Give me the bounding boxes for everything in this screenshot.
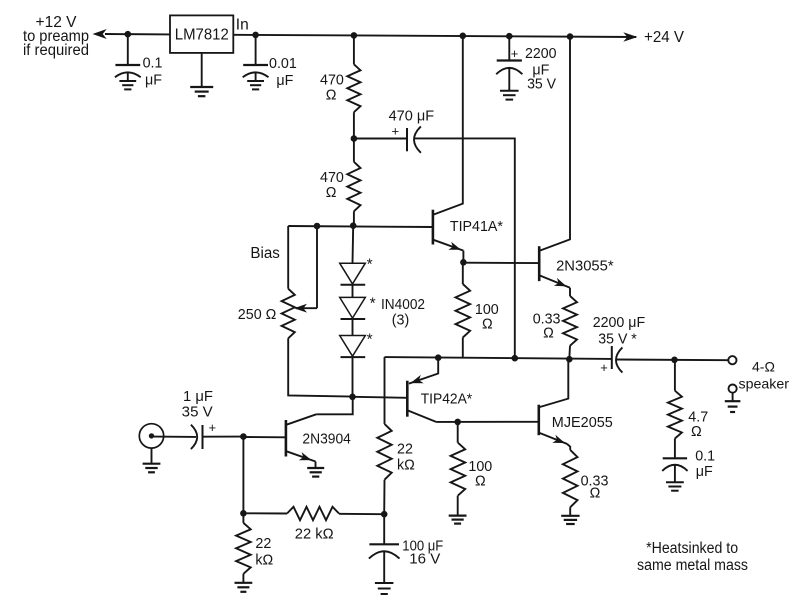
ground: Q3 emitter: [307, 462, 324, 477]
capacitor C8 2200 uF 35 V output coupling: [593, 315, 646, 375]
connector J1 phono input jack: [139, 424, 163, 448]
svg-text:0.1: 0.1: [695, 448, 715, 464]
resistor R1 470 ohm: [320, 64, 361, 112]
svg-text:μF: μF: [145, 73, 162, 89]
svg-text:0.1: 0.1: [143, 55, 163, 71]
junction: R9 tap on Q4 collector line: [454, 419, 461, 426]
svg-text:1 μF: 1 μF: [183, 389, 213, 405]
junction: Q2 collector rail tap: [567, 33, 574, 40]
svg-text:Ω: Ω: [475, 473, 486, 489]
svg-text:*: *: [367, 331, 373, 348]
junction: diode chain / feedback node: [349, 394, 356, 401]
wire: jack to C3: [154, 436, 196, 438]
junction: bootstrap node between R1 and R2: [351, 135, 358, 142]
wire: output rail corner down through crossover to R7: [384, 357, 386, 424]
capacitor C1 0.1 uF bypass with ground: [115, 34, 163, 89]
svg-text:MJE2055: MJE2055: [552, 415, 613, 431]
svg-text:Ω: Ω: [543, 325, 554, 341]
wire: V+ rail from U1 to +24V arrow: [233, 35, 636, 37]
ground: input jack shield: [143, 448, 161, 472]
resistor R4 100 ohm: [456, 284, 499, 338]
junction: bootstrap riser tap on output rail: [512, 355, 519, 362]
junction: divider node at R6/R8: [240, 510, 247, 517]
junction: TIP42A emitter tap on output rail: [435, 354, 442, 361]
svg-text:0.01: 0.01: [269, 56, 297, 72]
wiper arm of R3 with arrow: [294, 304, 317, 313]
wire: D1 to D2: [352, 285, 354, 297]
junction: Q1 collector rail tap: [460, 33, 467, 40]
wire: output rail from feedback corner to C8: [385, 357, 612, 359]
wire: C4 to output node (bootstrap riser): [414, 138, 515, 358]
transistor Q5 MJE2055 (NPN output): [539, 359, 613, 450]
svg-text:2200 μF: 2200 μF: [593, 315, 646, 331]
wire: Q4 collector line to Q5 base: [436, 421, 539, 423]
svg-text:Ω: Ω: [590, 486, 601, 502]
potentiometer R3 250 ohm: [238, 289, 295, 339]
svg-text:μF: μF: [696, 464, 713, 480]
resistor R9 100 ohm: [451, 443, 493, 496]
svg-text:+: +: [392, 124, 400, 139]
svg-text:LM7812: LM7812: [175, 27, 229, 44]
svg-text:+: +: [600, 360, 608, 375]
svg-text:470: 470: [320, 170, 344, 186]
ground: speaker return: [725, 393, 741, 412]
svg-text:+: +: [209, 420, 217, 435]
junction: top of 470 ohm chain on V+ rail: [351, 32, 358, 39]
ground: U1 common pin: [190, 53, 213, 96]
wire: C3 to input node: [203, 436, 244, 438]
label: 4-ohm speaker: [739, 358, 790, 391]
wire: feedback node to TIP42A base: [353, 397, 408, 398]
svg-text:*: *: [367, 256, 373, 273]
wire: V+ rail down to Q1 collector: [433, 36, 462, 215]
wire: V+ rail down to Q2 collector: [540, 37, 570, 251]
resistor R5 0.33 ohm: [533, 296, 577, 346]
svg-text:100: 100: [475, 302, 499, 318]
svg-text:+: +: [511, 46, 519, 61]
svg-text:*Heatsinked to: *Heatsinked to: [646, 540, 738, 557]
ground: R6 bottom: [235, 574, 253, 592]
junction: 0.01uF node at U1 input: [252, 32, 259, 39]
wire: input node down to divider node: [242, 437, 244, 514]
svg-text:2N3055*: 2N3055*: [556, 258, 614, 274]
svg-text:μF: μF: [276, 73, 293, 89]
svg-text:kΩ: kΩ: [255, 552, 273, 568]
svg-text:kΩ: kΩ: [397, 457, 415, 473]
wire: C8 to speaker terminal: [616, 359, 728, 362]
wire: wiper up to bias junction: [316, 226, 318, 308]
capacitor C3 1 uF 35 V input coupling: [182, 389, 216, 449]
resistor R7 22 kilohm: [377, 424, 415, 480]
wire: bootstrap node to C4: [354, 138, 407, 140]
resistor R11 0.33 ohm: [563, 450, 609, 507]
junction: 0.1uF node on +12V wire: [125, 31, 132, 38]
transistor Q2 2N3055 (NPN output): [539, 246, 614, 288]
transistor Q3 2N3904 (input NPN): [286, 397, 353, 462]
wire: R3 bottom to diode-chain bottom node: [288, 338, 352, 396]
svg-text:Ω: Ω: [326, 88, 337, 104]
transistor Q4 TIP42A (PNP driver): [407, 358, 472, 422]
wire: Q1 emitter node to R4: [462, 262, 464, 284]
label: IN4002 (3) for diode chain: [381, 297, 425, 329]
junction: 2200uF node on V+ rail: [506, 33, 513, 40]
svg-text:2N3904: 2N3904: [302, 432, 351, 448]
svg-text:Bias: Bias: [250, 245, 280, 262]
wire: R2 to Q1 base node: [353, 211, 355, 225]
wire: D2 to D3: [352, 319, 354, 335]
arrow: +12V output to preamp (left): [93, 29, 107, 39]
resistor R6 22 kilohm to ground: [236, 513, 273, 574]
wire: base line from bias corner to Q1 base: [288, 226, 433, 227]
wire: rail to R1: [353, 35, 355, 64]
resistor R8 22 kilohm feedback: [243, 507, 339, 543]
svg-text:22 kΩ: 22 kΩ: [295, 527, 334, 543]
wire: Q1 emitter node to Q2 base: [463, 262, 539, 264]
svg-text:Ω: Ω: [326, 185, 337, 201]
svg-text:35 V: 35 V: [182, 405, 213, 421]
wire: speaker node down to R10: [674, 360, 676, 391]
svg-text:22: 22: [397, 441, 413, 457]
resistor R2 470 ohm: [320, 162, 361, 212]
wire: R10 to C7: [674, 439, 676, 459]
arrow: +24V rail (right): [623, 32, 637, 42]
wire: R8 to C5 node: [339, 513, 384, 515]
svg-text:if required: if required: [23, 42, 89, 59]
terminal: speaker return (open circle): [729, 385, 737, 393]
svg-text:TIP42A*: TIP42A*: [421, 391, 473, 407]
svg-text:470 μF: 470 μF: [389, 109, 435, 125]
junction: Q2/Q5 tap on output rail: [566, 356, 573, 363]
wire: bias corner down to R3: [287, 226, 289, 289]
ground: R11 bottom: [561, 507, 579, 524]
wire: input node to Q3 base: [243, 436, 286, 438]
capacitor C2 0.01 uF bypass with ground: [243, 35, 297, 90]
wire: R1 to bootstrap node: [353, 112, 355, 138]
junction: wiper tap on base line: [314, 223, 321, 230]
diode D3 IN4002: [340, 336, 366, 358]
svg-text:22: 22: [255, 536, 271, 552]
svg-text:16 V: 16 V: [409, 552, 440, 568]
svg-text:Ω: Ω: [691, 424, 702, 440]
svg-text:In: In: [236, 16, 249, 33]
svg-text:IN4002: IN4002: [381, 297, 425, 313]
svg-text:+24 V: +24 V: [644, 29, 685, 46]
wire: Q2 emitter to R5: [569, 288, 571, 296]
wire: D3 to bottom bias node: [352, 357, 354, 397]
terminal: speaker + (open circle): [728, 356, 736, 364]
svg-text:4-Ω: 4-Ω: [752, 358, 775, 374]
junction: zobel tap at speaker node: [671, 357, 678, 364]
svg-text:35 V: 35 V: [527, 77, 556, 93]
diode D2 IN4002: [340, 297, 366, 319]
svg-text:*: *: [370, 295, 376, 312]
wire: R7 to C5 node: [383, 480, 385, 515]
junction: C5 node under R7: [381, 511, 388, 518]
diode D1 IN4002: [340, 263, 366, 285]
wire: R2 from bootstrap node: [353, 139, 355, 162]
ground: R9 bottom: [449, 496, 467, 524]
svg-text:2200: 2200: [525, 46, 557, 62]
transistor Q1 TIP41A (NPN driver): [433, 210, 503, 263]
capacitor C4 470 uF bootstrap: [389, 109, 435, 153]
svg-text:35 V *: 35 V *: [598, 332, 637, 348]
wire: +12V tap from V+ rail to left arrow: [105, 33, 170, 35]
svg-text:same metal mass: same metal mass: [637, 557, 748, 574]
resistor R10 4.7 ohm zobel: [668, 391, 708, 440]
svg-text:speaker: speaker: [739, 376, 790, 392]
wire: R4 to output rail: [462, 338, 464, 358]
svg-text:470: 470: [320, 73, 344, 89]
svg-text:250 Ω: 250 Ω: [238, 307, 277, 323]
capacitor C5 100 uF 16 V with ground: [369, 514, 444, 594]
svg-text:TIP41A*: TIP41A*: [450, 219, 503, 235]
wire: junction to R9: [457, 422, 459, 443]
wire: R5 to output rail: [568, 346, 571, 360]
regulator U1 LM7812 box: [170, 15, 233, 53]
junction: Q1 emitter node: [460, 259, 467, 266]
capacitor C6 2200 uF 35 V filter with ground: [496, 36, 556, 99]
svg-text:Ω: Ω: [482, 317, 493, 333]
junction: Q1 base node: [350, 222, 357, 229]
capacitor C7 0.1 uF zobel with ground: [662, 448, 715, 490]
note: heatsink footnote: [637, 540, 748, 574]
wire: Q1 base node down to D1: [352, 226, 355, 263]
junction: Q3 base input node: [240, 433, 247, 440]
svg-text:(3): (3): [392, 313, 409, 329]
